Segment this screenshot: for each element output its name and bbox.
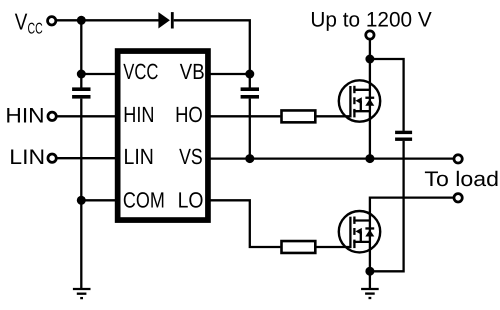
wire VB pin stub (209, 73, 250, 75)
svg-text:VCC: VCC (123, 59, 158, 84)
wire diode to VB corner (174, 20, 250, 74)
wire bus cap to ground node (374, 141, 404, 271)
diode D1 bootstrap (158, 12, 173, 28)
wire HIN (57, 115, 117, 117)
wire resistor to Q1 gate (316, 115, 351, 117)
terminal Vcc (48, 17, 56, 25)
wire VS line (209, 157, 454, 159)
wire HO to gate resistor (209, 115, 280, 117)
junction COM pin (77, 196, 86, 205)
wire VB to bootstrap cap (249, 74, 251, 88)
wire to ground right (369, 271, 371, 289)
svg-text:HIN: HIN (123, 102, 154, 127)
wire COM pin stub (81, 199, 117, 201)
junction VB node (245, 70, 254, 79)
svg-text:Up to 1200 V: Up to 1200 V (310, 8, 431, 31)
junction VCC pin (77, 70, 86, 79)
MOSFET Q2 low-side (339, 211, 380, 252)
junction Q2 source / ground (365, 267, 374, 276)
junction 1200V rail (365, 55, 374, 64)
svg-text:COM: COM (123, 187, 165, 212)
ground right (361, 289, 379, 298)
resistor R-gate-high (282, 110, 316, 122)
wire Q2 drain-source vertical (369, 197, 371, 272)
capacitor C-bus (395, 131, 412, 141)
svg-text:VB: VB (180, 59, 205, 84)
wire VCC pin stub (81, 73, 117, 75)
wire LO path (209, 200, 280, 247)
resistor R-gate-low (282, 241, 316, 253)
wire LIN (57, 157, 117, 159)
svg-text:LIN: LIN (9, 146, 45, 169)
label Vcc (15, 9, 43, 38)
svg-text:VS: VS (179, 144, 203, 169)
wire resistor to Q2 gate (316, 246, 351, 248)
svg-text:V: V (15, 9, 28, 35)
svg-text:HIN: HIN (5, 104, 44, 127)
capacitor C-bypass (72, 87, 90, 98)
wire Vcc to diode anode (57, 19, 159, 21)
svg-text:HO: HO (175, 102, 203, 127)
junction Vcc rail (77, 16, 86, 25)
svg-text:To load: To load (424, 168, 499, 191)
terminal HIN (48, 112, 56, 120)
terminal load bottom (454, 194, 462, 202)
terminal LIN (48, 154, 56, 162)
wire Vcc rail down to bypass cap (80, 20, 82, 87)
junction cap/VS (245, 154, 254, 163)
junction VS switch node (365, 154, 374, 163)
svg-text:LIN: LIN (124, 144, 154, 169)
terminal load top (454, 155, 462, 163)
IC U1 gate driver box (118, 51, 208, 220)
wire lower drain to load (370, 196, 454, 198)
wire bootstrap cap to VS (249, 99, 251, 159)
capacitor C-boot (241, 87, 259, 98)
wire rail to bus cap (370, 59, 404, 131)
terminal 1200V (366, 31, 374, 39)
svg-text:LO: LO (178, 187, 204, 212)
ground left (73, 289, 91, 298)
wire rail to ground left (80, 99, 82, 289)
svg-text:CC: CC (28, 21, 43, 38)
MOSFET Q1 high-side (339, 80, 380, 121)
wire 1200V rail / Q1 drain-source (369, 40, 371, 159)
